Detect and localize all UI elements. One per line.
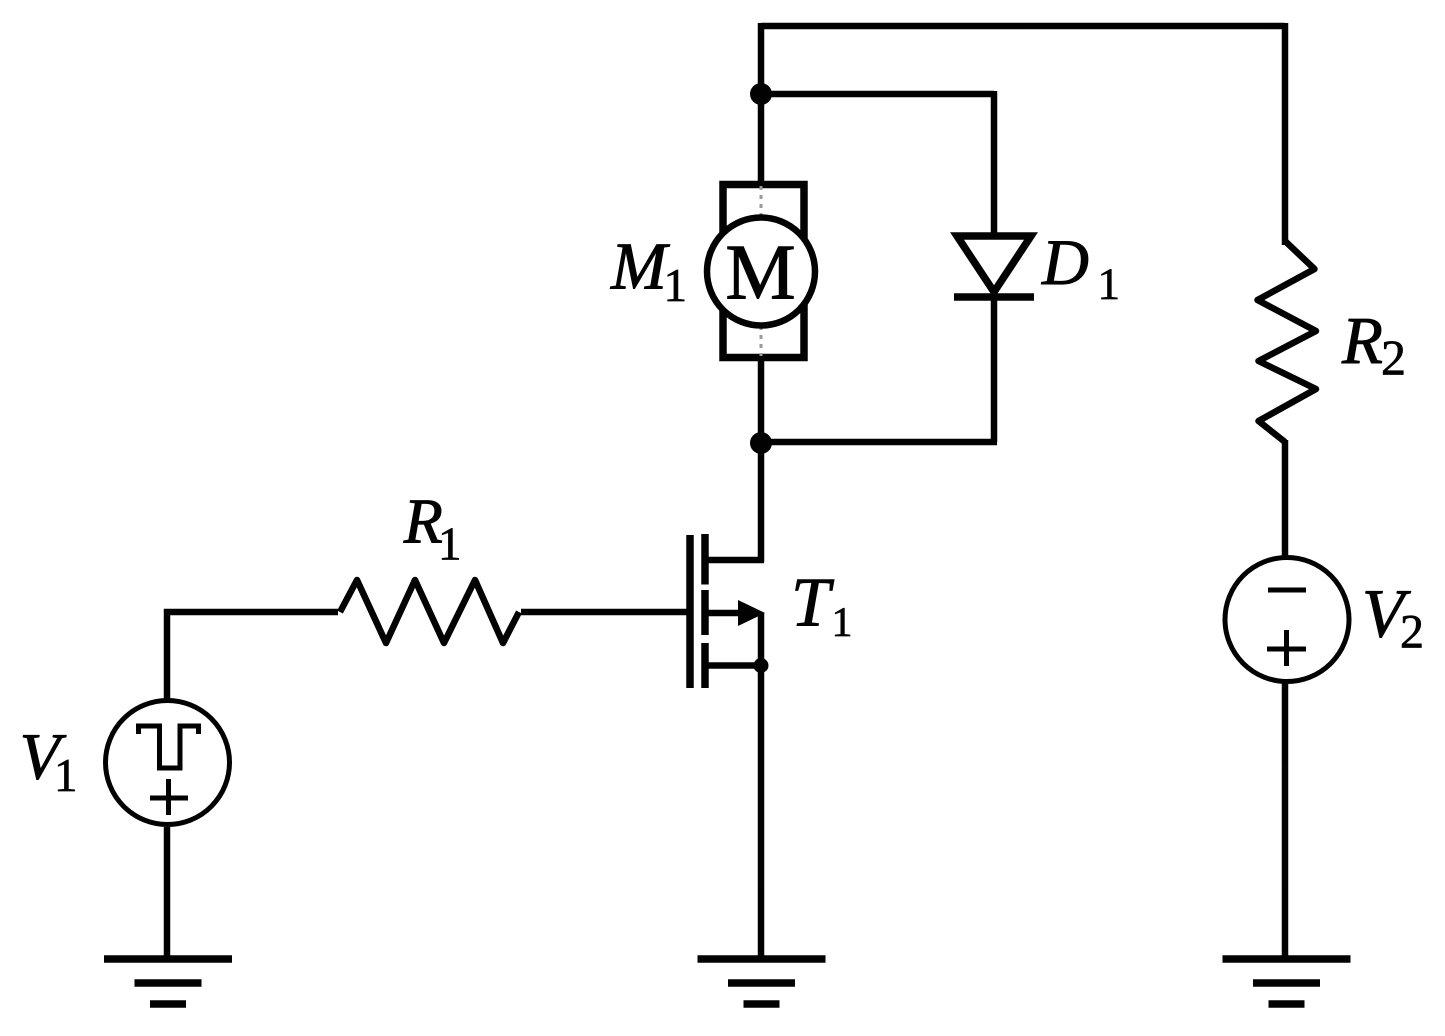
- source V1 pulse symbol: [139, 726, 199, 768]
- wire left vertical from top to motor: [758, 23, 765, 182]
- wire V1 top vertical: [164, 609, 171, 701]
- transistor T1 body arrow: [738, 600, 765, 626]
- resistor R2 zigzag: [1258, 241, 1317, 442]
- svg-text:1: 1: [832, 600, 853, 646]
- ground under V1: [104, 959, 232, 1004]
- wire drain vertical node B to T1: [758, 443, 765, 562]
- ground under T1: [698, 959, 826, 1004]
- motor M1 circle: [707, 218, 815, 326]
- source V2 circle: [1225, 558, 1349, 682]
- svg-text:R: R: [403, 486, 443, 557]
- source V1 circle: [106, 701, 230, 825]
- motor M1 frame: [723, 185, 804, 358]
- diode D1 triangle: [957, 236, 1031, 292]
- node A junction dot: [750, 83, 772, 105]
- transistor T1 gate bar: [686, 535, 694, 688]
- source V1 plus sign: [150, 779, 188, 815]
- wire dashed inside motor frame: [760, 186, 763, 356]
- transistor T1 source lead: [705, 662, 764, 669]
- wire R2 to V2 vertical: [1282, 440, 1289, 557]
- svg-text:2: 2: [1381, 330, 1406, 386]
- wire right vertical to R2: [1282, 23, 1289, 245]
- svg-text:1: 1: [438, 519, 462, 571]
- wire V1 bottom vertical to ground: [164, 827, 171, 959]
- source V2 minus sign: [1268, 588, 1306, 593]
- wire V2 bottom vertical to ground: [1282, 682, 1289, 959]
- node source lead junction: [754, 658, 769, 673]
- wire diode cathode vertical: [991, 297, 998, 442]
- svg-text:M: M: [610, 230, 670, 304]
- diode D1 cathode bar: [954, 293, 1034, 301]
- wire top horizontal: [761, 23, 1285, 30]
- source V2 plus sign: [1267, 630, 1306, 666]
- wire gate from R1 to T1: [521, 609, 688, 616]
- svg-text:D: D: [1041, 227, 1089, 299]
- svg-text:2: 2: [1400, 606, 1424, 659]
- svg-text:M: M: [725, 230, 795, 317]
- resistor R1 zigzag: [340, 580, 519, 643]
- wire motor bottom to node B: [758, 361, 765, 443]
- ground under V2: [1223, 959, 1351, 1004]
- transistor T1 body lead: [705, 610, 740, 617]
- svg-text:R: R: [1341, 304, 1383, 378]
- svg-text:1: 1: [1098, 259, 1121, 309]
- transistor T1 channel bar segments: [701, 534, 709, 688]
- wire source vertical T1 to ground: [758, 613, 765, 959]
- svg-text:1: 1: [664, 260, 688, 312]
- wire horizontal at node A to diode branch: [761, 91, 994, 98]
- wire horizontal diode bottom to node B: [761, 439, 997, 446]
- wire diode anode vertical: [991, 91, 998, 237]
- transistor T1 drain lead: [705, 557, 764, 564]
- wire V1 top horizontal to R1: [164, 609, 338, 616]
- node B junction dot: [750, 432, 772, 454]
- svg-text:1: 1: [54, 750, 78, 802]
- svg-text:T: T: [791, 565, 835, 642]
